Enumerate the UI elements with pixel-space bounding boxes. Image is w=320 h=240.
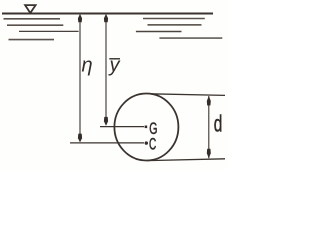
arrowhead y-bar top xyxy=(104,14,108,22)
centroid marker G (square dot) xyxy=(145,126,148,129)
water shading line right 3 xyxy=(136,31,182,33)
water shading line right 1 xyxy=(143,18,205,20)
svg-text:η: η xyxy=(82,55,93,77)
svg-text:y: y xyxy=(108,55,121,77)
extension line at centroid G level xyxy=(100,126,144,128)
center of pressure marker C (round dot) xyxy=(145,141,148,144)
extension line bottom of circle (for d) xyxy=(147,159,225,161)
arrowhead eta top xyxy=(78,14,82,22)
svg-text:C: C xyxy=(149,136,156,154)
water shading line left 3 xyxy=(19,30,79,32)
arrowhead eta bottom xyxy=(78,134,82,143)
circular gate (circle) xyxy=(114,94,178,161)
water shading line left 4 xyxy=(9,39,55,41)
arrowhead d bottom xyxy=(207,149,211,159)
svg-text:d: d xyxy=(214,111,223,137)
overbar of y-bar xyxy=(109,58,120,60)
arrowhead d top xyxy=(207,96,211,106)
dimension line eta (vertical) xyxy=(79,15,81,142)
water surface line xyxy=(2,13,213,15)
dimension line y-bar (vertical) xyxy=(105,15,107,125)
free-surface triangle symbol xyxy=(25,5,35,13)
extension line top of circle (for d) xyxy=(150,94,226,96)
water shading line right 2 xyxy=(148,24,202,26)
arrowhead y-bar bottom xyxy=(104,117,108,126)
extension line at center of pressure C level xyxy=(70,142,144,144)
water shading line left 1 xyxy=(4,18,61,20)
water shading line left 2 xyxy=(7,24,63,26)
water shading line right 4 xyxy=(159,37,222,39)
dimension line d (vertical) xyxy=(208,96,210,158)
